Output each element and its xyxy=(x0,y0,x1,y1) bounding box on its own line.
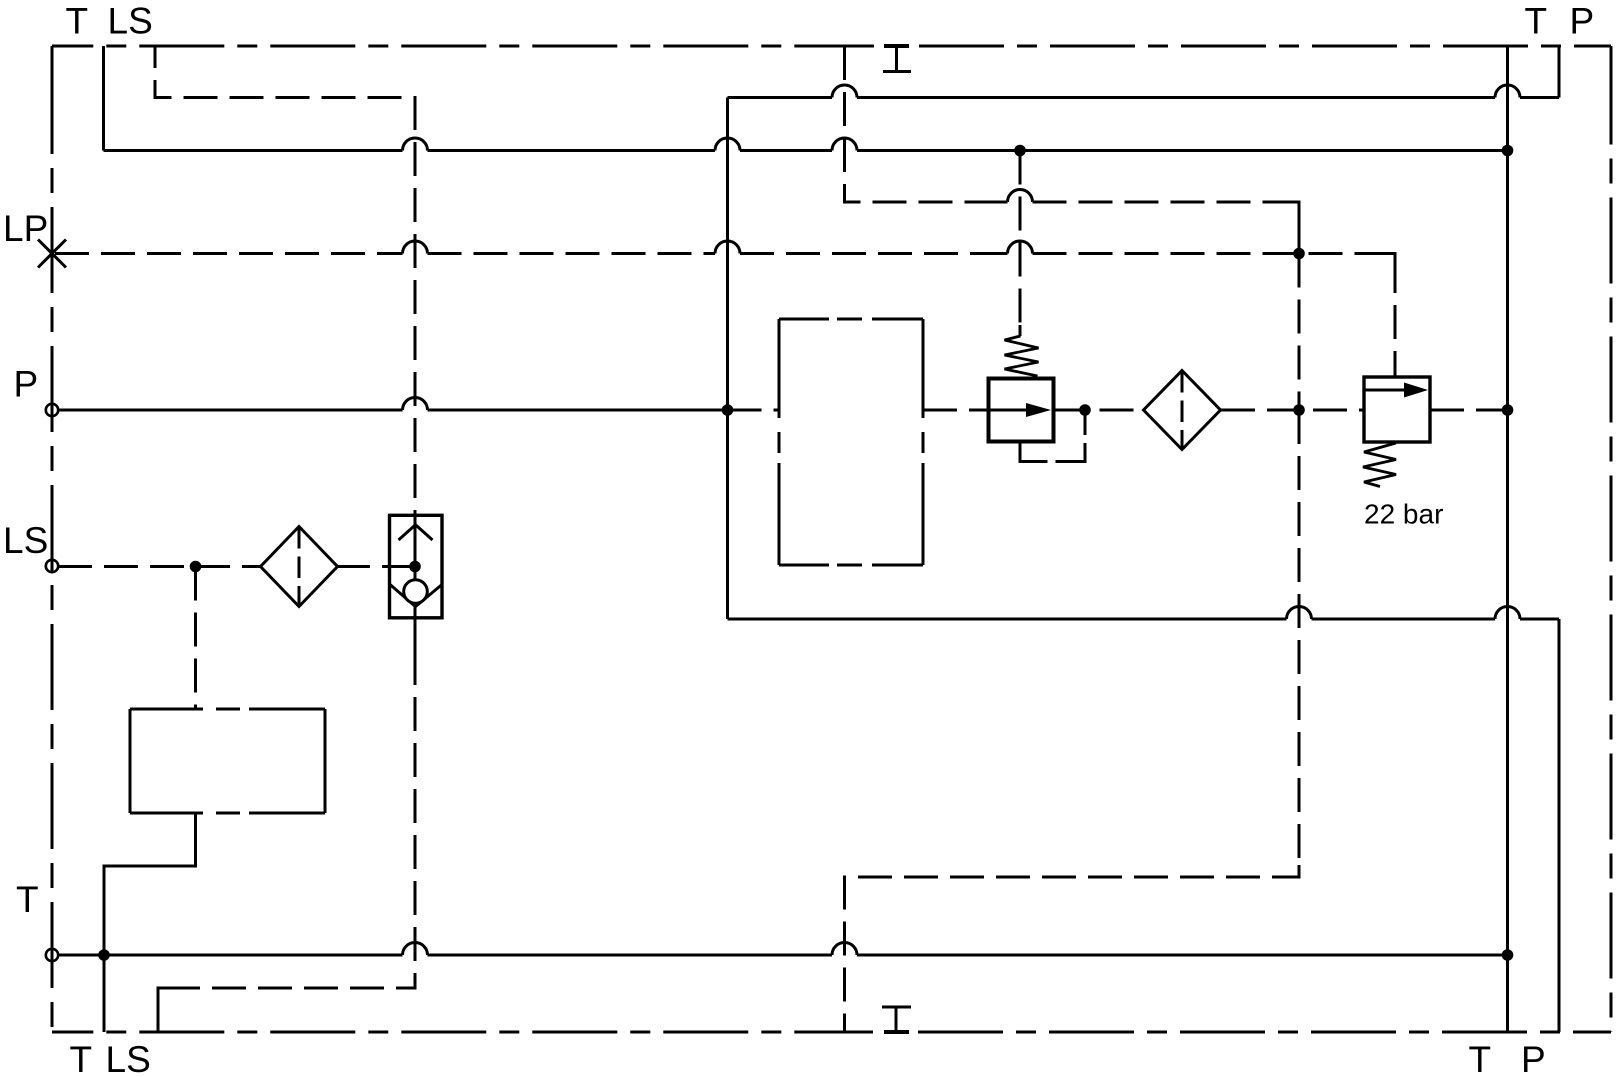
svg-text:P: P xyxy=(14,364,39,405)
svg-text:LS: LS xyxy=(108,1,153,42)
svg-text:22 bar: 22 bar xyxy=(1364,499,1443,530)
svg-text:P: P xyxy=(1521,1039,1546,1077)
svg-text:LS: LS xyxy=(106,1039,151,1077)
svg-text:T: T xyxy=(1525,1,1548,42)
svg-text:LP: LP xyxy=(3,208,48,249)
svg-text:LS: LS xyxy=(3,520,48,561)
svg-text:T: T xyxy=(16,879,39,920)
svg-text:T: T xyxy=(66,1,89,42)
svg-text:T: T xyxy=(70,1039,93,1077)
svg-text:T: T xyxy=(1469,1039,1492,1077)
svg-text:P: P xyxy=(1570,1,1595,42)
